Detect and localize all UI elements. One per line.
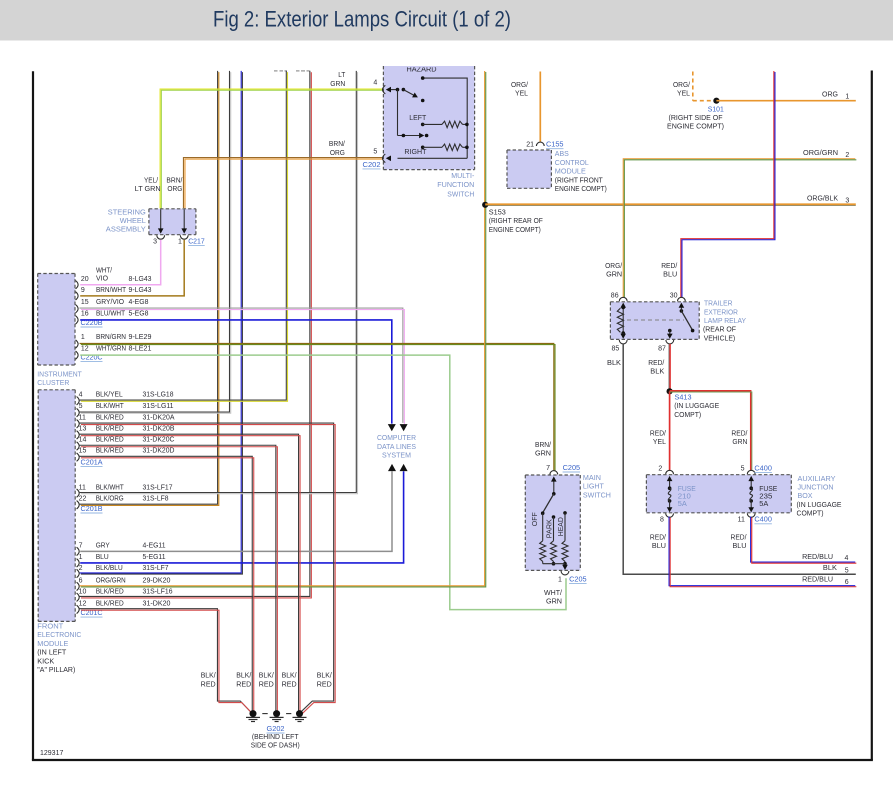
svg-text:RED: RED: [259, 681, 274, 688]
svg-text:COMPT): COMPT): [797, 511, 824, 518]
multi-function switch box: [383, 66, 474, 170]
svg-text:BLK/ORG: BLK/ORG: [96, 496, 124, 503]
svg-text:BLK/: BLK/: [259, 673, 274, 680]
svg-text:BLU: BLU: [96, 554, 109, 561]
wire BLK/RED vertical from top to FEM pin 10: [79, 71, 309, 597]
svg-text:21: 21: [526, 142, 534, 149]
svg-text:13: 13: [79, 425, 87, 432]
svg-text:STEERING: STEERING: [108, 209, 146, 216]
svg-text:ORG: ORG: [330, 150, 345, 157]
svg-text:YEL: YEL: [515, 91, 528, 98]
wire ORG/YEL dashed from top to splice S101: [692, 72, 694, 101]
multi-function switch pin 4 contact: [383, 85, 386, 94]
svg-text:BLU/WHT: BLU/WHT: [96, 311, 126, 318]
FEM pin 13 (BLK/RED 31-DK20B): [77, 431, 80, 439]
svg-text:BLK/RED: BLK/RED: [96, 437, 124, 444]
svg-text:BLK/YEL: BLK/YEL: [96, 392, 123, 399]
svg-text:BLU: BLU: [652, 543, 666, 550]
svg-text:RED/: RED/: [661, 263, 677, 270]
svg-text:MAIN: MAIN: [583, 475, 601, 482]
wire RED/BLU from fuse 210 pin 8 to terminal 6: [669, 516, 855, 585]
svg-text:CONTROL: CONTROL: [555, 160, 589, 167]
svg-text:8-LE21: 8-LE21: [129, 345, 152, 352]
svg-text:BRN/WHT: BRN/WHT: [96, 287, 127, 294]
svg-text:RED/: RED/: [731, 535, 747, 542]
svg-text:FUNCTION: FUNCTION: [437, 182, 474, 189]
svg-text:LIGHT: LIGHT: [583, 484, 605, 491]
svg-text:BLK/RED: BLK/RED: [96, 425, 124, 432]
svg-text:MODULE: MODULE: [37, 641, 68, 648]
svg-text:31S-LG18: 31S-LG18: [143, 392, 174, 399]
svg-text:BLK/: BLK/: [236, 673, 251, 680]
svg-text:LEFT: LEFT: [409, 115, 427, 122]
wire BLU/WHT from cluster pin 16 to computer data lines: [80, 320, 392, 424]
svg-text:85: 85: [612, 346, 620, 353]
svg-text:16: 16: [81, 311, 89, 318]
svg-text:3: 3: [845, 198, 849, 205]
svg-text:ASSEMBLY: ASSEMBLY: [106, 227, 146, 234]
svg-text:C155: C155: [546, 142, 564, 149]
svg-text:BLK/: BLK/: [201, 673, 216, 680]
svg-text:BRN/: BRN/: [535, 442, 551, 449]
svg-text:4: 4: [373, 80, 377, 87]
relay pin 85 arc: [619, 340, 627, 344]
svg-text:PARK: PARK: [546, 519, 553, 538]
svg-text:S101: S101: [708, 106, 724, 113]
svg-text:RED: RED: [282, 681, 297, 688]
svg-text:5: 5: [79, 403, 83, 410]
svg-text:BRN/GRN: BRN/GRN: [96, 334, 126, 341]
svg-text:C201B: C201B: [81, 506, 103, 513]
svg-text:WHT/: WHT/: [96, 268, 112, 275]
svg-text:C220B: C220B: [81, 320, 103, 327]
svg-text:5A: 5A: [759, 501, 768, 508]
main light switch PARK contact and resistor: [552, 515, 556, 519]
wire BLK from relay pin 85 to terminal 5: [623, 344, 856, 574]
svg-text:YEL: YEL: [677, 91, 690, 98]
fuse F235 5A: [750, 480, 752, 488]
svg-text:WHEEL: WHEEL: [120, 218, 146, 225]
svg-text:ORG/: ORG/: [511, 82, 528, 89]
svg-text:C201A: C201A: [81, 460, 103, 467]
svg-text:Fig 2: Exterior Lamps Circuit: Fig 2: Exterior Lamps Circuit (1 of 2): [213, 7, 511, 32]
svg-text:2: 2: [845, 152, 849, 159]
multi-function switch pin 5 contact: [383, 154, 386, 163]
svg-text:5: 5: [845, 567, 849, 574]
svg-text:COMPUTER: COMPUTER: [377, 435, 416, 442]
fuse box pin 5 arc: [747, 470, 755, 474]
splice S413: [667, 388, 673, 394]
wire WHT/VIO from C217 pin 3 to instrument cluster pin 20: [80, 240, 161, 285]
svg-text:S153: S153: [489, 210, 506, 217]
svg-text:(BEHIND LEFT: (BEHIND LEFT: [252, 734, 299, 741]
svg-text:BLK/BLU: BLK/BLU: [96, 565, 123, 572]
FEM pin 7 (GRY 4-EG11): [77, 547, 80, 555]
svg-text:4-EG8: 4-EG8: [129, 299, 149, 306]
multi-function switch hazard bus wire: [423, 78, 468, 158]
main light switch HEAD contact and resistor: [563, 511, 567, 515]
svg-text:KICK: KICK: [37, 658, 54, 665]
svg-text:31-DK20: 31-DK20: [143, 600, 171, 607]
wire BLU from FEM pin 1 to computer data lines: [80, 471, 403, 563]
wire YEL/LT GRN from multi-function switch pin 4 to steering wheel assembly: [160, 89, 384, 208]
wire BLK/BLU vertical from top to FEM pin 2: [80, 71, 242, 573]
svg-text:31S-LF16: 31S-LF16: [143, 589, 173, 596]
relay switch blade: [680, 309, 684, 313]
multi-function switch turn-signal common wire: [397, 90, 399, 136]
svg-text:9: 9: [81, 287, 85, 294]
svg-text:1: 1: [845, 94, 849, 101]
fuse F210 5A: [669, 480, 671, 488]
svg-text:ORG: ORG: [822, 92, 838, 99]
svg-text:C205: C205: [569, 576, 587, 583]
svg-text:31-DK20D: 31-DK20D: [143, 448, 175, 455]
svg-text:5-EG8: 5-EG8: [129, 311, 149, 318]
svg-text:RED/: RED/: [731, 430, 747, 437]
wire BLK/RED from FEM pin 14 to ground G202: [79, 445, 275, 711]
svg-text:BLU: BLU: [733, 543, 747, 550]
svg-text:FRONT: FRONT: [37, 624, 64, 631]
wire BLK/ORG vertical from top to FEM pin 22: [80, 71, 218, 504]
svg-text:GRN: GRN: [606, 272, 622, 279]
main light switch selector blade: [553, 481, 555, 494]
svg-text:(IN LEFT: (IN LEFT: [37, 650, 67, 657]
svg-text:GRN: GRN: [535, 451, 551, 458]
FEM pin 22 (BLK/ORG 31S-LF8): [77, 501, 80, 509]
svg-text:1: 1: [81, 334, 85, 341]
ABS control module box: [507, 150, 551, 188]
svg-text:YEL: YEL: [653, 439, 666, 446]
wire BRN/ORG from multi-function switch pin 5 to steering wheel assembly: [183, 158, 383, 209]
ground symbol G202 junction 1: [250, 710, 257, 717]
svg-text:ORG/: ORG/: [605, 263, 622, 270]
svg-text:GRY/VIO: GRY/VIO: [96, 299, 125, 306]
relay internal dashed link: [627, 319, 684, 321]
svg-text:5: 5: [741, 465, 745, 472]
svg-text:GRN: GRN: [546, 599, 562, 606]
svg-text:30: 30: [670, 293, 678, 300]
instrument cluster pin 20 (WHT/VIO 8-LG43): [76, 281, 79, 289]
svg-text:7: 7: [79, 543, 83, 550]
svg-text:BLK: BLK: [823, 565, 837, 572]
svg-text:TRAILER: TRAILER: [704, 301, 733, 308]
svg-text:C400: C400: [754, 517, 772, 524]
svg-text:ORG/BLK: ORG/BLK: [807, 196, 838, 203]
instrument cluster pin 9 (BRN/WHT 9-LG43): [76, 292, 79, 300]
svg-text:RED: RED: [201, 681, 216, 688]
main light switch box: [525, 475, 580, 570]
svg-text:6: 6: [79, 577, 83, 584]
main light switch OFF contact and resistor: [541, 511, 545, 515]
svg-text:31S-LF17: 31S-LF17: [143, 485, 173, 492]
svg-text:BLK/WHT: BLK/WHT: [96, 485, 125, 492]
svg-text:210: 210: [678, 494, 691, 501]
svg-text:3: 3: [153, 238, 157, 245]
svg-text:RED/: RED/: [650, 430, 666, 437]
svg-text:(RIGHT FRONT: (RIGHT FRONT: [555, 177, 604, 184]
svg-text:ELECTRONIC: ELECTRONIC: [37, 632, 81, 639]
svg-text:MULTI-: MULTI-: [451, 173, 475, 180]
FEM pin 2 (BLK/BLU 31S-LF7): [77, 569, 80, 577]
wire BLK/RED from FEM pin 11 to ground G202: [79, 423, 333, 713]
svg-text:GRY: GRY: [96, 543, 110, 550]
ground bus dash 2: [286, 713, 291, 715]
fuse box pin 11 arc: [747, 513, 755, 517]
svg-text:31S-LF8: 31S-LF8: [143, 496, 169, 503]
wire BLK/WHT vertical from top to FEM pin 5: [80, 71, 230, 412]
connector C217 pin arcs: [157, 235, 165, 239]
wire GRY from FEM pin 7 to computer data lines: [80, 471, 392, 551]
svg-text:HAZARD: HAZARD: [407, 67, 437, 74]
FEM pin 11b (BLK/WHT 31S-LF17): [77, 489, 80, 497]
main light switch pin 7 arc: [550, 471, 558, 475]
svg-text:COMPT): COMPT): [674, 412, 701, 419]
front electronic module box: [38, 390, 75, 622]
wire RED/GRN from S413 to fuse 235: [670, 391, 751, 471]
svg-text:BRN/: BRN/: [166, 177, 182, 184]
FEM pin 4 (BLK/YEL 31S-LG18): [77, 397, 80, 405]
svg-text:VEHICLE): VEHICLE): [704, 335, 736, 342]
svg-text:FUSE: FUSE: [678, 486, 696, 493]
svg-text:RIGHT: RIGHT: [404, 149, 427, 156]
wire RED/BLK from relay pin 87 to splice S413: [668, 344, 670, 391]
cut-off text fragments at top of page: [274, 70, 278, 72]
svg-text:RED/BLU: RED/BLU: [802, 554, 833, 561]
svg-text:RED: RED: [317, 681, 332, 688]
splice S101: [713, 98, 719, 104]
svg-text:RED: RED: [236, 681, 251, 688]
steering wheel assembly pin 3 arrow: [160, 210, 162, 229]
svg-text:31S-LF7: 31S-LF7: [143, 565, 169, 572]
svg-text:SWITCH: SWITCH: [447, 192, 474, 199]
svg-text:G202: G202: [267, 726, 285, 733]
svg-text:15: 15: [81, 299, 89, 306]
svg-text:ORG: ORG: [167, 186, 182, 193]
svg-text:C205: C205: [563, 465, 581, 472]
svg-text:GRN: GRN: [330, 81, 345, 88]
wire RED/BLU from fuse 235 pin 11 to terminal 4: [751, 516, 856, 562]
FEM pin 1 (BLU 5-EG11): [77, 559, 80, 567]
wire RED/BLU from top to trailer relay pin 30: [681, 71, 774, 297]
svg-text:(REAR OF: (REAR OF: [703, 327, 736, 334]
svg-text:8: 8: [660, 517, 664, 524]
svg-text:BLK/RED: BLK/RED: [96, 414, 124, 421]
wire ORG from S101 to terminal 1: [716, 100, 855, 102]
svg-text:6: 6: [845, 579, 849, 586]
fuse box pin 8 arc: [666, 513, 674, 517]
svg-text:BLK/RED: BLK/RED: [96, 589, 124, 596]
svg-text:GRN: GRN: [732, 439, 747, 446]
svg-text:5-EG11: 5-EG11: [143, 554, 166, 561]
instrument cluster pin 12 (WHT/GRN 8-LE21): [76, 351, 79, 359]
svg-text:ENGINE COMPT): ENGINE COMPT): [555, 186, 607, 193]
wire BLK/RED from FEM pin 15 to ground G202: [79, 456, 252, 711]
main light switch pin 1 arc: [561, 571, 569, 575]
instrument cluster pin 15 (GRY/VIO 4-EG8): [76, 305, 79, 313]
steering wheel assembly box: [149, 209, 196, 235]
splice S153: [482, 202, 488, 208]
svg-text:235: 235: [759, 494, 772, 501]
svg-text:AUXILIARY: AUXILIARY: [798, 476, 836, 483]
svg-text:7: 7: [546, 465, 550, 472]
svg-text:RED/: RED/: [650, 535, 666, 542]
page frame border: [32, 71, 34, 760]
FEM pin 5 (BLK/WHT 31S-LG11): [77, 408, 80, 416]
svg-text:(RIGHT REAR OF: (RIGHT REAR OF: [489, 218, 543, 225]
wire BRN/WHT from C217 pin 1 to instrument cluster pin 9: [80, 240, 184, 296]
steering wheel assembly pin 1 arrow: [183, 210, 185, 229]
wire RED/YEL from S413 to fuse 210: [669, 391, 671, 471]
svg-text:20: 20: [81, 276, 89, 283]
ground symbol G202 junction 3: [296, 710, 303, 717]
wire BLK/RED from FEM pin 12 to ground G202: [79, 609, 251, 713]
svg-text:RED/BLU: RED/BLU: [802, 577, 833, 584]
svg-text:4: 4: [845, 555, 849, 562]
svg-text:1: 1: [79, 554, 83, 561]
svg-text:1: 1: [558, 576, 562, 583]
wire BLK/WHT vertical from top to FEM pin 11: [80, 71, 357, 493]
title bar: [0, 0, 893, 41]
main light switch output bus: [543, 563, 565, 565]
svg-text:11: 11: [738, 517, 745, 524]
svg-text:BOX: BOX: [798, 493, 813, 500]
wire BRN/GRN from cluster pin 1 to main light switch pin 7: [80, 343, 554, 470]
svg-text:BLK/: BLK/: [282, 673, 297, 680]
svg-text:(IN LUGGAGE: (IN LUGGAGE: [674, 403, 719, 410]
svg-text:FUSE: FUSE: [759, 486, 777, 493]
svg-text:JUNCTION: JUNCTION: [798, 485, 834, 492]
svg-text:INSTRUMENT: INSTRUMENT: [37, 371, 82, 378]
svg-text:2: 2: [658, 465, 662, 472]
trailer exterior lamp relay box: [610, 302, 699, 340]
instrument cluster pin 16 (BLU/WHT 5-EG8): [76, 316, 79, 324]
svg-text:129317: 129317: [40, 750, 63, 757]
multi-function switch hazard blade: [403, 90, 413, 96]
wire ORG/GRN from FEM pin 6 to splice S153: [80, 71, 485, 586]
svg-text:ENGINE COMPT): ENGINE COMPT): [667, 124, 724, 131]
wire ORG/BLK from S153 to terminal 3: [485, 203, 856, 205]
svg-text:RED/: RED/: [648, 360, 664, 367]
svg-text:YEL/: YEL/: [144, 177, 158, 184]
svg-text:10: 10: [79, 589, 87, 596]
svg-text:C217: C217: [188, 238, 205, 245]
svg-text:31-DK20A: 31-DK20A: [143, 414, 175, 421]
svg-text:5A: 5A: [678, 501, 687, 508]
svg-text:8-LG43: 8-LG43: [129, 276, 152, 283]
relay pin 30 arc: [678, 297, 686, 301]
svg-text:(IN LUGGAGE: (IN LUGGAGE: [797, 502, 842, 509]
svg-text:DATA LINES: DATA LINES: [377, 444, 416, 451]
instrument cluster box: [38, 274, 75, 366]
svg-text:C201C: C201C: [81, 610, 103, 617]
svg-text:ABS: ABS: [555, 151, 569, 158]
svg-text:1: 1: [178, 238, 182, 245]
wire ORG/YEL from top to ABS module C155: [539, 72, 541, 142]
svg-text:BRN/: BRN/: [329, 141, 345, 148]
instrument cluster pin 1 (BRN/GRN 9-LE29): [76, 340, 79, 348]
svg-text:SWITCH: SWITCH: [583, 492, 611, 499]
svg-text:2: 2: [79, 565, 83, 572]
FEM pin 6 (ORG/GRN 29-DK20): [77, 582, 80, 590]
svg-text:5: 5: [373, 149, 377, 156]
relay pin 86 arc: [619, 297, 627, 301]
svg-text:4: 4: [79, 392, 83, 399]
wire ORG/GRN from terminal 2 to trailer relay pin 86: [623, 159, 855, 297]
FEM pin 11 (BLK/RED 31-DK20A): [77, 420, 80, 428]
svg-text:WHT/GRN: WHT/GRN: [96, 345, 126, 352]
svg-text:31S-LG11: 31S-LG11: [143, 403, 174, 410]
multi-function switch RIGHT resistor: [421, 146, 425, 150]
svg-text:"A" PILLAR): "A" PILLAR): [37, 667, 75, 674]
svg-text:VIO: VIO: [96, 276, 109, 283]
svg-text:BLK: BLK: [650, 369, 664, 376]
svg-text:SYSTEM: SYSTEM: [382, 453, 411, 460]
FEM pin 14 (BLK/RED 31-DK20C): [77, 442, 80, 450]
svg-text:ORG/: ORG/: [673, 82, 690, 89]
wire BLK/YEL vertical from top to FEM pin 4: [80, 71, 287, 400]
ground bus dash 1: [262, 713, 267, 715]
svg-text:12: 12: [79, 600, 87, 607]
svg-text:29-DK20: 29-DK20: [143, 577, 171, 584]
FEM pin 15 (BLK/RED 31-DK20D): [77, 453, 80, 461]
connector C155 pin 21: [536, 142, 544, 146]
svg-text:BLK: BLK: [607, 360, 621, 367]
svg-text:87: 87: [658, 346, 666, 353]
svg-text:ORG/GRN: ORG/GRN: [96, 577, 126, 584]
svg-text:14: 14: [79, 437, 87, 444]
relay coil: [622, 308, 624, 334]
svg-text:BLK/: BLK/: [317, 673, 332, 680]
svg-text:CLUSTER: CLUSTER: [37, 380, 69, 387]
svg-text:9-LE29: 9-LE29: [129, 334, 152, 341]
svg-text:MODULE: MODULE: [555, 169, 586, 176]
svg-text:22: 22: [79, 496, 87, 503]
svg-text:31-DK20B: 31-DK20B: [143, 425, 175, 432]
FEM pin 10 (BLK/RED 31S-LF16): [77, 593, 80, 601]
svg-text:C202: C202: [363, 162, 381, 169]
svg-text:ORG/GRN: ORG/GRN: [803, 150, 838, 157]
svg-text:(RIGHT SIDE OF: (RIGHT SIDE OF: [669, 115, 723, 122]
multi-function switch LEFT resistor: [421, 123, 425, 127]
relay pin 87 arc: [666, 340, 674, 344]
svg-text:LT GRN: LT GRN: [135, 186, 161, 193]
svg-text:11: 11: [79, 485, 86, 492]
svg-text:HEAD: HEAD: [558, 517, 565, 536]
wire WHT/GRN from cluster pin 12 to main light switch pin 1: [80, 355, 566, 609]
wire GRY/VIO from cluster pin 15 to computer data lines: [79, 308, 402, 423]
svg-text:EXTERIOR: EXTERIOR: [704, 309, 738, 316]
ground symbol G202 junction 2: [273, 710, 280, 717]
wire BLK/RED from FEM pin 13 to ground G202: [79, 434, 298, 711]
relay pin 87 contact: [668, 329, 672, 333]
svg-text:C400: C400: [754, 465, 772, 472]
fuse box pin 2 arc: [666, 470, 674, 474]
svg-text:BLU: BLU: [663, 272, 677, 279]
svg-text:SIDE OF DASH): SIDE OF DASH): [251, 743, 300, 750]
svg-text:BLK/RED: BLK/RED: [96, 600, 124, 607]
svg-text:BLK/WHT: BLK/WHT: [96, 403, 125, 410]
svg-text:11: 11: [79, 414, 86, 421]
svg-text:OFF: OFF: [532, 512, 539, 526]
svg-text:BLK/RED: BLK/RED: [96, 448, 124, 455]
svg-text:LAMP RELAY: LAMP RELAY: [704, 318, 746, 325]
svg-text:12: 12: [81, 345, 89, 352]
svg-text:WHT/: WHT/: [544, 590, 562, 597]
svg-text:9-LG43: 9-LG43: [129, 287, 152, 294]
svg-text:15: 15: [79, 448, 87, 455]
svg-text:31-DK20C: 31-DK20C: [143, 437, 175, 444]
FEM pin 12 (BLK/RED 31-DK20): [77, 605, 80, 613]
